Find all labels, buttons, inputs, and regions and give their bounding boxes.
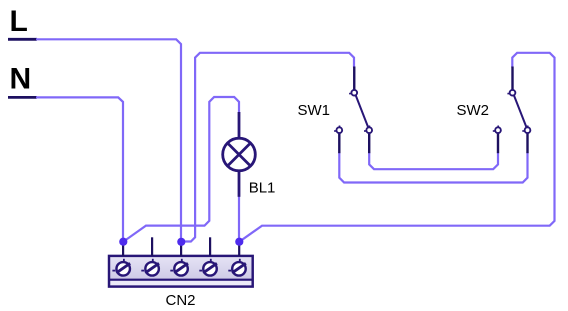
svg-text:CN2: CN2 bbox=[166, 292, 196, 309]
terminal bar L bbox=[8, 38, 37, 41]
svg-text:L: L bbox=[10, 5, 28, 38]
CN2 pin 5 bbox=[228, 241, 246, 276]
junction node at CN2 pin 1 bbox=[119, 238, 127, 246]
svg-text:SW1: SW1 bbox=[298, 102, 331, 119]
svg-text:BL1: BL1 bbox=[249, 179, 276, 196]
connector CN2 body bbox=[109, 256, 253, 287]
svg-text:N: N bbox=[10, 63, 32, 96]
junction node at CN2 pin 5 bbox=[235, 238, 243, 246]
terminal bar N bbox=[8, 96, 37, 99]
wire N to CN2 pin 1 bbox=[36, 97, 123, 241]
wire CN2 pin 1 to BL1 top bbox=[123, 97, 239, 242]
svg-text:SW2: SW2 bbox=[457, 102, 490, 119]
wire CN2 pin 3 to SW1 common bbox=[181, 53, 354, 242]
wire L to CN2 pin 3 bbox=[36, 39, 181, 242]
CN2 pin 1 bbox=[112, 241, 130, 276]
junction node at CN2 pin 3 bbox=[177, 238, 185, 246]
CN2 pin 2 bbox=[141, 237, 159, 275]
switch SW1 bbox=[334, 67, 372, 154]
lamp BL1 bbox=[223, 112, 256, 197]
wire traveller SW1 L1 to SW2 L2 bbox=[339, 153, 527, 183]
CN2 pin 4 bbox=[199, 237, 217, 275]
wire BL1 bottom to CN2 pin 5 bbox=[238, 196, 240, 242]
wire SW2 common to CN2 pin 5 bbox=[239, 53, 554, 242]
wire traveller SW1 L2 to SW2 L1 bbox=[369, 153, 498, 170]
switch SW2 bbox=[493, 67, 531, 154]
CN2 pin 3 bbox=[170, 241, 188, 276]
